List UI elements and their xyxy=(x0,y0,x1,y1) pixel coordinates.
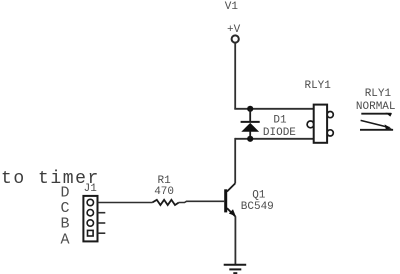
svg-text:B: B xyxy=(60,216,69,233)
svg-text:470: 470 xyxy=(154,186,174,198)
svg-text:C: C xyxy=(60,200,69,217)
svg-text:BC549: BC549 xyxy=(241,201,274,213)
svg-text:RLY1: RLY1 xyxy=(365,88,392,100)
svg-text:J1: J1 xyxy=(84,183,98,195)
svg-text:NORMAL: NORMAL xyxy=(356,101,396,113)
svg-text:+V: +V xyxy=(227,24,241,36)
svg-text:R1: R1 xyxy=(157,175,171,187)
svg-text:RLY1: RLY1 xyxy=(304,80,331,92)
svg-text:D1: D1 xyxy=(273,115,287,127)
svg-text:A: A xyxy=(60,231,69,248)
svg-text:DIODE: DIODE xyxy=(263,127,296,139)
svg-text:D: D xyxy=(60,184,69,201)
svg-text:Q1: Q1 xyxy=(252,190,266,202)
svg-text:V1: V1 xyxy=(225,1,239,13)
